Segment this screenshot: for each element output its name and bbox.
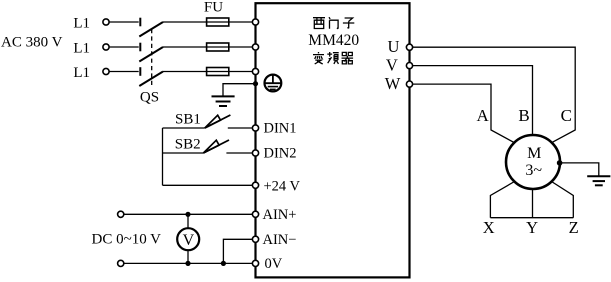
terminal circle DIN1 [252,125,258,131]
terminal circle input T [252,68,258,74]
svg-text:MM420: MM420 [308,32,359,49]
fuse FU-3 [207,68,229,76]
svg-text:L1: L1 [73,65,90,81]
junction AIN+ / meter [185,212,190,217]
svg-text:V: V [183,232,195,249]
terminal circle DIN2 [252,150,258,156]
svg-text:AIN+: AIN+ [263,207,297,223]
terminal circle 0V source [118,260,124,266]
wire motor X winding end [490,182,514,218]
earth ground symbol (left) [212,95,235,97]
ground junction dot on PE node [253,81,258,86]
wire meter top [187,214,189,228]
svg-text:DIN2: DIN2 [264,146,297,162]
terminal circle AIN+ source [118,211,124,217]
svg-text:L1: L1 [73,40,90,56]
svg-text:Z: Z [569,218,579,237]
terminal circle phase 2 [103,44,109,50]
wire W to motor phase A [413,84,515,143]
switch QS mechanical linkage (dashed) [151,29,153,86]
svg-text:SB2: SB2 [175,137,201,153]
wire phase2 to switch [109,46,139,48]
wire phase3 switch to fuse [163,71,252,73]
wire PE to earth [223,84,256,97]
wire meter bottom [187,250,189,263]
svg-text:V: V [386,55,398,74]
wire SB2 left [163,152,204,154]
terminal circle AIN- [252,236,258,242]
svg-text:A: A [476,106,489,125]
terminal circle +24V [252,182,258,188]
SB1 blade [205,115,231,128]
wire star point bus [490,217,573,219]
terminal circle phase 1 [103,19,109,25]
switch QS pole 3 fixed contact [139,67,141,76]
terminal circle input R [252,19,258,25]
svg-text:DC 0~10 V: DC 0~10 V [92,232,162,248]
wire V to motor phase B [413,66,533,136]
wire phase1 switch to fuse [163,21,252,23]
switch QS pole 3 blade [139,72,163,87]
fuse FU-1 [207,18,229,26]
svg-text:+24 V: +24 V [264,179,301,195]
voltmeter V [177,228,199,250]
wire SB common vertical [162,128,164,185]
wire common to +24V [163,184,253,186]
motor M 3~ [506,135,560,189]
svg-text:3~: 3~ [525,162,542,179]
svg-text:DIN1: DIN1 [264,121,297,137]
fuse FU-2 [207,43,229,51]
wire phase2 switch to fuse [163,46,252,48]
svg-text:X: X [483,218,495,237]
svg-text:B: B [518,106,529,125]
junction meter / 0V [185,261,190,266]
wire AIN+ row [124,213,253,215]
switch QS pole 1 fixed contact [139,18,141,27]
svg-text:FU: FU [204,0,223,15]
svg-text:Y: Y [526,218,538,237]
wire SB1 left [163,127,205,129]
svg-text:U: U [388,37,400,56]
wire phase1 to switch [109,21,139,23]
switch QS pole 1 blade [139,22,163,37]
wire U to motor phase C [413,47,576,142]
svg-text:C: C [561,106,572,125]
svg-text:L1: L1 [73,15,90,31]
wire phase3 to switch [109,71,139,73]
svg-text:SB1: SB1 [175,112,201,128]
label 变频器 (drawn glyphs) [313,52,353,64]
SB2 arrowhead [203,140,219,153]
wire motor Y winding end [532,189,534,218]
switch QS pole 2 fixed contact [139,43,141,52]
protective earth symbol PE (circle) [265,75,282,92]
svg-text:M: M [527,145,541,162]
wire 0V row [124,262,253,264]
motor frame ground junction dot [557,160,563,166]
wire motor frame to earth [560,163,599,176]
terminal circle 0V [252,260,258,266]
SB1 arrowhead [205,115,221,128]
label 西门子 (drawn glyphs) [313,17,354,29]
wire AIN- link [223,239,252,263]
wire SB2 to DIN2 [226,152,252,154]
terminal circle W [406,81,412,87]
wire SB1 to DIN1 [228,127,253,129]
svg-text:AC 380 V: AC 380 V [1,35,63,51]
terminal circle AIN+ [252,211,258,217]
svg-text:0V: 0V [265,256,283,272]
svg-text:AIN−: AIN− [263,232,297,248]
SB2 blade [203,140,229,153]
terminal circle V [406,63,412,69]
junction AIN- / 0V [221,261,226,266]
inverter box (Siemens MM420) [256,3,410,277]
terminal circle input S [252,44,258,50]
terminal circle phase 3 [103,68,109,74]
terminal circle U [406,44,412,50]
switch QS pole 2 blade [139,47,163,62]
earth ground symbol (right) [587,175,610,177]
wire motor Z winding end [552,182,574,218]
svg-text:QS: QS [140,90,159,106]
svg-text:W: W [385,74,401,93]
